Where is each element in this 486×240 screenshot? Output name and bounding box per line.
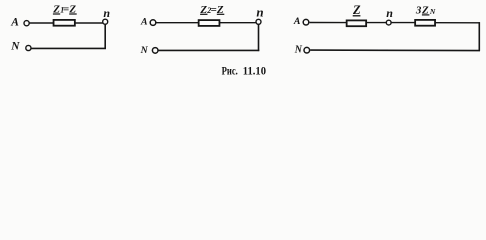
svg-text:N: N <box>10 40 20 52</box>
value label Z1=Z (circuit 1) <box>52 4 76 16</box>
svg-text:A: A <box>140 17 148 28</box>
wire N rail (circuit 3) <box>310 49 480 52</box>
svg-text:A: A <box>10 16 19 28</box>
wire A to Z2 (circuit 2) <box>156 22 199 24</box>
resistor 3ZN (circuit 3) <box>415 20 435 26</box>
svg-text:3: 3 <box>415 4 422 16</box>
svg-text:11.10: 11.10 <box>243 65 266 77</box>
resistor Z2 (circuit 2) <box>199 20 220 26</box>
wire 3ZN to right corner (circuit 3) <box>435 22 480 24</box>
svg-text:n: n <box>103 6 110 20</box>
resistor Z (circuit 3) <box>347 20 367 26</box>
caption Рис. 11.10 <box>222 65 267 77</box>
node n (circuit 3) <box>386 20 391 25</box>
value label 3ZN (circuit 3) <box>415 4 436 16</box>
svg-text:n: n <box>386 6 393 20</box>
terminal N (circuit 1) <box>26 45 31 50</box>
wire right corner down (circuit 3) <box>478 22 480 51</box>
resistor Z1 (circuit 1) <box>54 20 75 26</box>
wire node n down to N rail (circuit 2) <box>258 24 260 51</box>
terminal N (circuit 2) <box>152 48 158 54</box>
value label Z2=Z (circuit 2) <box>199 4 224 16</box>
svg-text:N: N <box>140 45 149 56</box>
terminal N (circuit 3) <box>304 47 310 53</box>
wire N rail (circuit 2) <box>158 49 259 51</box>
node n (circuit 1) <box>103 19 108 24</box>
node n (circuit 2) <box>256 19 261 24</box>
value label Z (circuit 3) <box>352 3 361 17</box>
wire Z2 to node n (circuit 2) <box>220 22 257 24</box>
svg-text:Z: Z <box>352 3 361 17</box>
wire Z1 to node n (circuit 1) <box>74 22 103 24</box>
terminal A (circuit 2) <box>150 20 156 26</box>
wire N rail (circuit 1) <box>31 47 106 49</box>
wire node n to 3ZN (circuit 3) <box>391 22 416 24</box>
svg-text:N: N <box>294 45 303 56</box>
wire A to Z (circuit 3) <box>310 22 347 24</box>
wire node n down to N rail (circuit 1) <box>104 24 106 49</box>
svg-text:A: A <box>293 16 301 27</box>
svg-text:n: n <box>256 5 263 20</box>
terminal A (circuit 3) <box>303 19 309 25</box>
wire Z to node n (circuit 3) <box>366 22 386 24</box>
svg-text:=: = <box>63 4 69 16</box>
wire A to Z1 (circuit 1) <box>30 22 55 24</box>
terminal A (circuit 1) <box>24 21 29 26</box>
svg-text:Рис.: Рис. <box>222 65 238 77</box>
svg-text:=: = <box>211 4 217 16</box>
svg-text:N: N <box>429 7 436 16</box>
